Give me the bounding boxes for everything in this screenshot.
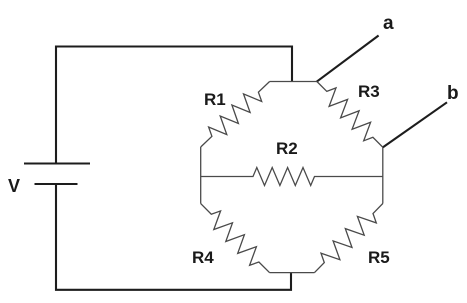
resistor R4: [201, 204, 270, 273]
label R3: [358, 82, 380, 102]
label R4: [192, 248, 214, 268]
label R2: [276, 139, 298, 159]
label terminal b: [447, 83, 459, 105]
resistor R2: [201, 168, 383, 186]
wire: terminal a lead: [317, 36, 379, 82]
wire: bottom loop from battery - terminal down, across, and up to bridge bottom node: [56, 184, 291, 290]
label R1: [204, 90, 226, 110]
battery V short plate (-): [35, 183, 78, 185]
battery V long plate (+): [24, 162, 90, 164]
label V (voltage source): [8, 176, 20, 197]
resistor R3: [317, 82, 383, 148]
resistor R1: [201, 82, 270, 148]
wire: top loop from battery + terminal up, across, and down to bridge top node: [56, 47, 292, 164]
wire: terminal b lead: [383, 102, 447, 147]
node: bridge right junction segment: [382, 147, 384, 203]
resistor R5: [315, 204, 383, 273]
label terminal a: [383, 13, 394, 35]
node: bridge left junction segment: [200, 147, 202, 204]
node: bridge top junction segment: [270, 81, 317, 83]
node: bridge bottom junction segment: [270, 272, 315, 274]
label R5: [368, 248, 390, 268]
